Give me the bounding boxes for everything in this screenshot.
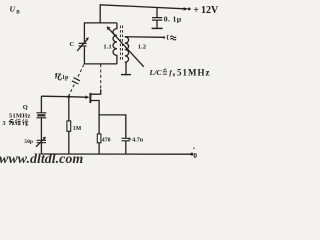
trimmer arrow (36, 139, 44, 147)
node +12V arrow and dot (184, 7, 189, 10)
wire source branch to 4.7n (99, 115, 126, 138)
svg-text:Q: Q (23, 104, 28, 111)
node 0 terminal (190, 153, 193, 156)
svg-text:4.7n: 4.7n (132, 137, 144, 143)
svg-text:470: 470 (102, 137, 111, 143)
source lead (91, 101, 99, 134)
capacitor 4.7n plates (122, 138, 131, 141)
tuning arrow through transformer (109, 28, 144, 66)
capacitor C (variable) plates (79, 43, 87, 46)
drain lead (91, 89, 101, 94)
wire +12V rail with riser (100, 5, 184, 23)
inductor L2 (1.2) winding (125, 37, 129, 63)
capacitor about-1p plates (tilted) (72, 78, 80, 84)
gate arrowhead (85, 95, 89, 99)
svg-text:50p: 50p (24, 139, 33, 145)
capacitor 50p trimmer plates (37, 140, 46, 142)
svg-text:0: 0 (193, 152, 197, 160)
label 4.7n with tie dash (128, 138, 131, 140)
svg-text:L/C: L/C (149, 68, 163, 77)
capacitor C arrow (77, 39, 87, 51)
svg-text:1.1: 1.1 (103, 43, 111, 50)
dashed feedback line (about 1p) (69, 65, 84, 96)
node output terminal (163, 36, 165, 38)
svg-text:51MHz: 51MHz (9, 112, 31, 119)
capacitor C4 0.1u leads (156, 8, 158, 18)
wire drain dashed up to tank (100, 64, 102, 89)
crystal Q plates and slab (36, 113, 46, 118)
lead 50p to rail (40, 143, 42, 154)
svg-text:C: C (70, 41, 75, 48)
svg-text:B: B (16, 9, 20, 15)
svg-text:0. 1μ: 0. 1μ (164, 15, 182, 24)
wire gate (41, 96, 86, 97)
wire L2 top to output (125, 36, 164, 39)
svg-text:+ 12V: + 12V (193, 5, 219, 16)
resistor 470 (97, 134, 101, 143)
label 约1p (55, 73, 61, 80)
svg-text:1.2: 1.2 (138, 43, 146, 50)
svg-text:3: 3 (3, 120, 6, 127)
transformer core (dashed) (120, 26, 122, 61)
svg-text:www.dltdl.com: www.dltdl.com (0, 152, 83, 167)
label L/C = f0 51MHz (149, 67, 211, 78)
svg-text:U: U (10, 4, 16, 13)
node gate junction (67, 95, 70, 98)
ground for L2 (121, 74, 131, 76)
svg-text:1M: 1M (73, 126, 82, 132)
svg-text:1p: 1p (62, 75, 69, 81)
svg-text:51MHz: 51MHz (177, 67, 211, 77)
transistor V1 JFET channel bar (89, 93, 91, 103)
capacitor C4 0.1u plates (152, 18, 162, 21)
ground for 0.1u (152, 27, 163, 29)
tank circuit box (C parallel L1) (84, 23, 117, 43)
inductor L1 (1.1) winding (113, 23, 117, 64)
crystal Q lead (40, 96, 42, 112)
wire bottom rail (41, 153, 191, 155)
label U_B (10, 4, 21, 15)
resistor 1M leads (68, 97, 70, 121)
wire L2 bottom (125, 62, 127, 74)
